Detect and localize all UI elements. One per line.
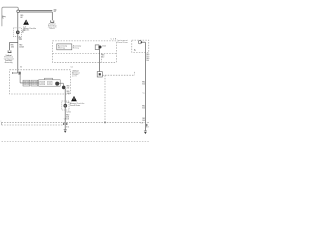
splice dot in relay row [55, 82, 59, 86]
dashed link vertical [104, 75, 106, 122]
wire drop at bus end [51, 12, 53, 20]
svg-text:Assembly: Assembly [5, 61, 13, 64]
relay sub-rect marks [24, 82, 51, 84]
pin glyphs at left wire crossing [63, 123, 64, 125]
main wire down from B+ [17, 12, 19, 69]
right wire arrow [144, 132, 147, 134]
bottom boundary dashed lower [2, 124, 63, 126]
bottom boundary dashed upper [2, 121, 150, 123]
connector C2 splice circle [64, 104, 68, 108]
wire label below C1 [19, 37, 23, 41]
svg-text:Panel Fuse: Panel Fuse [117, 42, 128, 44]
fuse wire label [101, 55, 105, 59]
exit wire labels [67, 91, 71, 95]
wire from fuse down [99, 48, 101, 71]
relay box 3 [39, 80, 61, 86]
svg-text:Relay: Relay [73, 48, 79, 50]
IP fuse block dashed box [53, 41, 117, 62]
lighter dot [141, 41, 143, 43]
caution text 1 [23, 26, 36, 31]
underhood label text [72, 71, 80, 78]
coil bridge above relay 3 [44, 78, 52, 80]
branch wire label [11, 45, 15, 49]
svg-text:C205 B: C205 B [64, 119, 70, 121]
boundary left join [1, 122, 3, 125]
caution 2 marker [66, 102, 69, 104]
fuse blob [99, 46, 102, 49]
branch wire vertical [8, 43, 10, 51]
wire from fuse down [19, 75, 21, 83]
right accessory dashed box [132, 40, 149, 52]
branch wire horizontal [9, 42, 17, 44]
svg-text:1034 A: 1034 A [19, 45, 24, 48]
svg-text:Wiring: Wiring [58, 48, 65, 50]
bus wire upper [20, 10, 53, 12]
svg-text:S: S [134, 48, 136, 52]
exit wire down [64, 89, 66, 130]
IP internal partition [53, 52, 117, 54]
right pin glyphs [146, 124, 147, 126]
connector square SQ [97, 72, 102, 77]
fuse label [102, 45, 106, 48]
right wire down [144, 42, 146, 131]
underhood fuse block dashed box [10, 70, 71, 94]
bus wire lower [20, 11, 53, 13]
component label under S2 [4, 55, 14, 64]
svg-text:Left: Left [72, 75, 77, 78]
terminal circle B+ [17, 10, 20, 13]
relay box 1 [23, 80, 30, 86]
wire from circle to right [142, 41, 146, 43]
fuse glyph FB [19, 72, 21, 75]
terminal cup S110 [51, 20, 54, 22]
exit wire label [67, 86, 71, 90]
IP label text [117, 39, 128, 44]
caution triangle 1 [23, 20, 29, 25]
main wire label pair [19, 45, 24, 49]
wire step down [62, 83, 64, 86]
connector C1 dashed box [13, 28, 21, 37]
terminal stub inside box [12, 72, 17, 74]
bus line to relay row [20, 82, 38, 84]
dashed link horizontal [102, 74, 134, 76]
battery junction box [2, 7, 18, 26]
left wire arrow [64, 131, 67, 133]
caution text 2 [70, 102, 85, 107]
labels below C2 [64, 112, 72, 121]
pin label [66, 126, 70, 128]
terminal cup S2 [8, 50, 11, 52]
right wire labels top [146, 54, 150, 62]
svg-text:Rear of Cluster: Rear of Cluster [70, 104, 81, 107]
bottom boundary dashed second [2, 141, 150, 143]
wire into stub [17, 70, 19, 73]
lighter circle symbol [138, 41, 141, 44]
faint page tab [0, 121, 2, 123]
glyph S inside right box [134, 48, 136, 52]
pin label C1 at underhood NE corner [71, 66, 74, 68]
right wire crossing label [140, 118, 146, 124]
splice dot 2 [62, 86, 66, 90]
svg-text:Block: Block [50, 28, 55, 30]
terminal label text [48, 22, 57, 30]
right wire labels mid [142, 81, 147, 109]
junction tick at bottom of dashed vertical [104, 122, 106, 124]
dashed link end tick [134, 72, 136, 75]
wire label right end [54, 10, 58, 14]
connector C1 splice circle [16, 31, 20, 35]
pin label C2 at IP box NE corner [111, 38, 117, 40]
R1 inner text [58, 45, 67, 50]
connector C2 dashed box [62, 101, 69, 110]
IP internal partition vertical [101, 53, 103, 62]
right wire end tick [144, 130, 147, 132]
caution triangle 2 [71, 96, 77, 101]
connector C1 label [22, 30, 26, 33]
relay box 2 [31, 80, 38, 86]
left wire end tick [64, 129, 67, 131]
wire from splice right [59, 82, 64, 84]
fuse F1 [95, 45, 99, 50]
relay rect R1 [57, 44, 72, 50]
battery label text [2, 15, 6, 20]
svg-text:C 2 B: C 2 B [111, 38, 117, 40]
R1 right label [73, 45, 81, 50]
pin label above underhood box [20, 66, 23, 68]
wire label RED left [20, 15, 24, 19]
